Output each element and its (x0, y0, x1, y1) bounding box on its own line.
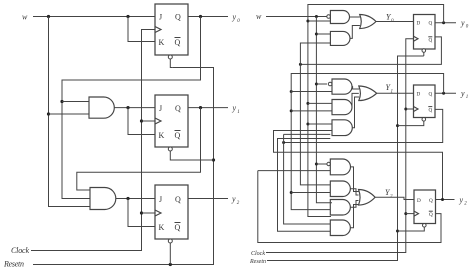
wire w tap to gate 3a (316, 163, 327, 165)
svg-text:y: y (460, 89, 465, 98)
flip-flop F3 Qbar overline (429, 210, 433, 212)
wire B output (350, 26, 360, 39)
flip-flop F2 labels (417, 91, 433, 113)
label Y0 (386, 13, 394, 25)
wire y1 feedback (291, 74, 443, 210)
node w rail dot 3a (315, 163, 318, 166)
label Clock (right) (251, 251, 265, 257)
wire Y1 to D (377, 92, 414, 94)
svg-text:Resetn: Resetn (249, 259, 266, 265)
svg-text:2: 2 (464, 202, 467, 207)
node Q0 tap dot to AND1 (60, 100, 63, 103)
node Clock dot U3 (140, 211, 143, 214)
label y2 (right) (459, 195, 468, 206)
label y1 (right) (460, 89, 468, 100)
wire Clock stub U3 (142, 212, 156, 214)
svg-text:Q: Q (429, 107, 433, 113)
wire 3d output (351, 205, 359, 228)
svg-text:y: y (232, 13, 237, 22)
flip-flop U3 box (JK, y2) (155, 185, 188, 239)
AND gate G2 (90, 188, 116, 210)
node w junction dot 2 (126, 15, 129, 18)
node y2 dot (441, 198, 444, 201)
flip-flop U2 box (JK, y1) (155, 95, 188, 147)
wire 3b output (350, 189, 358, 195)
wire w rail (right) (316, 17, 332, 203)
wire w tap to gate B (316, 33, 330, 35)
wire ybar1 rail to 3d top (284, 134, 331, 224)
wire y1 tap to 2b bottom (291, 110, 332, 112)
node ybar1 rail dot (282, 141, 285, 144)
wire 3a bottom input (258, 170, 331, 172)
wire Q0 output (188, 16, 228, 18)
flip-flop F1 Qbar overline (428, 36, 432, 38)
AND gate 3c (330, 200, 350, 216)
flip-flop F1 box (D, y0) (414, 15, 436, 50)
OR gate S3 (359, 190, 376, 206)
node Q1 output dot (199, 106, 202, 109)
wire y0 tap to gate 2c (308, 123, 332, 125)
AND gate 2c (332, 120, 352, 136)
svg-text:y: y (232, 104, 237, 113)
svg-text:Q: Q (429, 20, 433, 26)
wire 3b bottom input (291, 192, 330, 194)
wire U3 clear path (169, 243, 171, 265)
svg-text:Q: Q (429, 198, 433, 204)
wire Q1 feedback (77, 108, 201, 190)
svg-text:J: J (159, 195, 162, 204)
wire U1 clear path (170, 59, 172, 68)
label y0 (232, 13, 241, 25)
svg-text:w: w (22, 13, 28, 22)
node Resetn dot U2 (212, 158, 215, 161)
wire Clock line (right) (266, 39, 414, 253)
wire y0 tap to gate A (308, 20, 331, 22)
label w (left) (22, 13, 28, 22)
node Clock dot U2 (140, 119, 143, 122)
wire U2 J-to-K link (128, 108, 155, 135)
AND gate B (330, 31, 350, 45)
wire Clock stub U2 (142, 120, 156, 122)
svg-text:J: J (159, 13, 162, 22)
wire y2 output (436, 199, 455, 201)
svg-text:K: K (159, 38, 165, 47)
wire ybar0 feedback (300, 37, 441, 65)
node y0 dot (442, 21, 445, 24)
node y0 rail dot A (306, 20, 309, 23)
svg-text:Q: Q (429, 212, 433, 218)
wire ybar1 tap to 2c third input (284, 133, 331, 135)
wire Q2 output (188, 198, 228, 200)
flip-flop U2 Qbar overline (175, 130, 181, 132)
node w tap dot to AND1 (47, 112, 50, 115)
node resetn dot F3 (396, 230, 399, 233)
flip-flop F2 box (D, y1) (414, 85, 436, 118)
AND gate 3a (330, 159, 350, 175)
flip-flop F1 clock wedge (414, 36, 419, 41)
AND gate 2b (332, 100, 352, 115)
wire 2b output (352, 93, 359, 107)
wire B bottom input from rail (300, 43, 330, 185)
flip-flop F3 clear bubble (423, 224, 427, 228)
wire G1 output to J1 (114, 107, 155, 109)
label y0 (right) (460, 18, 469, 29)
flip-flop U2 labels (159, 104, 182, 140)
svg-text:1: 1 (466, 95, 469, 100)
flip-flop F2 clear bubble (422, 118, 426, 122)
node resetn dot F2 (396, 124, 399, 127)
wire clock stub F2 (406, 108, 414, 110)
svg-text:0: 0 (237, 19, 240, 24)
flip-flop U2 clock wedge (155, 118, 161, 124)
node clock dot F3 (404, 212, 407, 215)
wire ybar2 feedback (258, 171, 441, 243)
svg-text:Q: Q (175, 131, 181, 140)
wire w vertical rail (49, 17, 91, 207)
wire Q0 feedback (62, 17, 201, 199)
svg-text:Q: Q (175, 223, 181, 232)
flip-flop U3 clock wedge (155, 210, 161, 216)
node y1 rail dot 2bbot (290, 109, 293, 112)
node y1 rail dot 2a (290, 90, 293, 93)
wire y1b extra wrap to 3d bottom (278, 139, 331, 232)
wire 3c output (350, 201, 358, 208)
node w dot right (315, 15, 318, 18)
svg-text:Q: Q (429, 38, 433, 44)
flip-flop F2 Qbar overline (428, 106, 432, 108)
label w (right) (256, 12, 262, 21)
wire F2 clear path (398, 121, 424, 126)
node clock dot F2 (404, 108, 407, 111)
label Resetn (3, 260, 24, 269)
svg-text:y: y (231, 195, 236, 204)
wire F3 clear path (398, 227, 425, 231)
node G2 output dot (126, 197, 129, 200)
svg-text:Clock: Clock (11, 246, 29, 255)
wire Q1 output (188, 107, 228, 109)
AND gate 3d (330, 220, 350, 236)
inverter bubble gate 3a input (327, 162, 330, 165)
wire 2a output (352, 87, 359, 89)
wire 2c output (352, 97, 359, 128)
wire U1 J-to-K link (128, 17, 155, 42)
node Q0 output dot (199, 15, 202, 18)
svg-text:Resetn: Resetn (3, 260, 24, 269)
label y1 (232, 104, 240, 116)
flip-flop U2 clear bubble (168, 147, 172, 151)
flip-flop U1 box (JK, y0) (155, 4, 188, 55)
svg-text:D: D (417, 198, 421, 204)
svg-text:Q: Q (175, 195, 181, 204)
svg-text:Q: Q (175, 104, 181, 113)
flip-flop F3 box (D, y2) (414, 190, 436, 224)
wire y1 tap to 2a bottom (291, 91, 332, 93)
svg-text:D: D (417, 20, 421, 26)
label Y2 (385, 188, 393, 200)
label y2 (231, 195, 240, 207)
wire Resetn line (right) (267, 56, 424, 261)
flip-flop U1 clock wedge (155, 27, 161, 33)
wire w line (right) (266, 16, 327, 18)
svg-text:Q: Q (175, 38, 181, 47)
wire Y2 to D (375, 197, 414, 199)
wire 3a output (351, 167, 359, 192)
svg-text:D: D (417, 91, 421, 97)
node y0 rail dot 2c (306, 123, 309, 126)
wire w tap to AND1 bottom input (49, 113, 90, 115)
svg-text:y: y (459, 195, 464, 204)
flip-flop U1 labels (159, 13, 182, 48)
flip-flop F1 labels (417, 20, 433, 43)
flip-flop U3 clear bubble (168, 239, 172, 243)
AND gate A (330, 11, 349, 24)
wire U2 clear path (170, 151, 213, 160)
AND gate 2a (332, 79, 352, 94)
flip-flop F1 clear bubble (422, 49, 426, 53)
flip-flop F3 labels (417, 198, 433, 218)
label Y1 (386, 83, 394, 95)
wire w input line (33, 16, 155, 18)
flip-flop U3 labels (159, 195, 182, 232)
flip-flop F2 clock wedge (414, 107, 419, 112)
wire y2 feedback (274, 131, 443, 200)
wire Resetn line (33, 68, 214, 265)
wire A output (350, 16, 360, 18)
inverter bubble gate A input (327, 15, 331, 19)
node y0 rail dot 2b (306, 102, 309, 105)
wire clock stub F3 (406, 213, 414, 215)
wire U3 J-to-K link (128, 199, 155, 227)
wire Y0 to D (376, 21, 414, 23)
node Resetn dot U3 (169, 263, 172, 266)
wire y0 output (435, 22, 456, 24)
node ybar0 rail dot (299, 63, 302, 66)
node y1 rail dot 3b (290, 191, 293, 194)
inverter bubble gate 2a input (328, 82, 332, 86)
wire w tap to gate 2a (316, 83, 327, 85)
node G1 output dot (126, 106, 129, 109)
flip-flop U1 Qbar overline (175, 37, 181, 39)
svg-text:K: K (159, 131, 165, 140)
svg-text:1: 1 (237, 110, 240, 115)
OR gate S1 (360, 15, 376, 29)
flip-flop U1 clear bubble (168, 55, 172, 59)
node w junction dot 1 (47, 15, 50, 18)
wire F1 clear path (423, 52, 425, 56)
wire Clock line (31, 30, 155, 251)
svg-text:J: J (159, 104, 162, 113)
svg-text:K: K (159, 223, 165, 232)
label Resetn (right) (249, 259, 266, 265)
label Clock (11, 246, 29, 255)
wire y0 feedback over top (308, 5, 444, 217)
wire Q0 tap to AND1 top input (62, 101, 89, 103)
flip-flop F3 clock wedge (414, 211, 419, 216)
wire G2 output to J2 (116, 198, 155, 200)
svg-text:Clock: Clock (251, 251, 265, 257)
svg-text:y: y (460, 18, 465, 27)
svg-text:Q: Q (429, 91, 433, 97)
wire y0 tap to gate 2b (308, 102, 332, 104)
AND gate 3b (330, 181, 350, 197)
node y1 dot (442, 92, 445, 95)
svg-text:Q: Q (175, 13, 181, 22)
flip-flop U3 Qbar overline (175, 222, 181, 224)
node w rail dot B (315, 33, 318, 36)
wire ybar1 feedback (284, 109, 443, 142)
svg-text:2: 2 (237, 201, 240, 206)
AND gate G1 (89, 97, 114, 118)
svg-text:w: w (256, 12, 262, 21)
OR gate S2 (359, 86, 377, 101)
svg-text:0: 0 (466, 25, 469, 30)
wire y1 output (435, 92, 456, 94)
node w rail dot 2a (315, 83, 318, 86)
